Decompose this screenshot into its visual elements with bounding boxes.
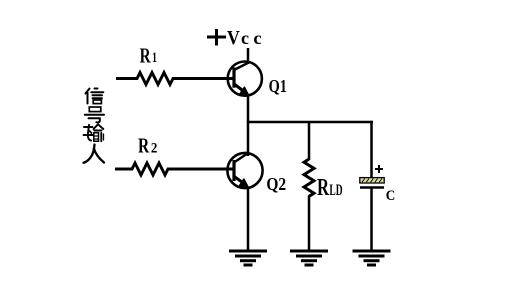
wire Q2 emitter to ground: [247, 188, 250, 252]
capacitor C bottom plate: [360, 186, 384, 189]
ground G1: [229, 251, 267, 265]
transistor Q2: [227, 153, 262, 188]
svg-text:c: c: [253, 28, 261, 48]
svg-text:c: c: [241, 28, 249, 48]
wire node to Q2 collector: [247, 122, 250, 156]
svg-text:R: R: [138, 135, 150, 157]
label RLD: [317, 174, 343, 201]
wire node to RLD: [308, 122, 311, 160]
label R2: [138, 135, 157, 157]
wire RLD to ground: [308, 196, 311, 252]
svg-text:V: V: [227, 28, 240, 49]
wire Vcc to Q1 collector: [247, 48, 250, 64]
label signal-input char 信: [86, 89, 104, 104]
svg-text:Q1: Q1: [269, 76, 287, 96]
ground G3: [353, 251, 391, 265]
label signal-input char 输: [84, 124, 104, 141]
label signal-input char 入: [84, 145, 105, 163]
label +Vcc plus sign: [207, 29, 226, 46]
resistor R2: [115, 163, 233, 175]
capacitor C top plate: [360, 178, 384, 183]
svg-text:Q2: Q2: [266, 174, 286, 194]
svg-text:LD: LD: [329, 182, 342, 199]
svg-text:2: 2: [151, 141, 158, 157]
wire node rail: [247, 121, 373, 124]
svg-text:R: R: [140, 46, 152, 68]
label Vcc: [227, 28, 262, 49]
label signal-input char 号: [85, 107, 104, 122]
ground G2: [290, 251, 328, 265]
wire capacitor to ground: [370, 188, 373, 252]
wire Q1 emitter down to node: [247, 96, 250, 122]
label R1: [140, 46, 157, 68]
svg-text:C: C: [386, 187, 396, 204]
svg-text:1: 1: [152, 50, 157, 66]
resistor R1: [116, 73, 233, 85]
resistor RLD: [304, 159, 314, 196]
svg-text:R: R: [317, 174, 329, 201]
wire node to capacitor C: [370, 121, 373, 178]
capacitor C plus sign: [375, 165, 383, 173]
transistor Q1: [228, 62, 262, 96]
